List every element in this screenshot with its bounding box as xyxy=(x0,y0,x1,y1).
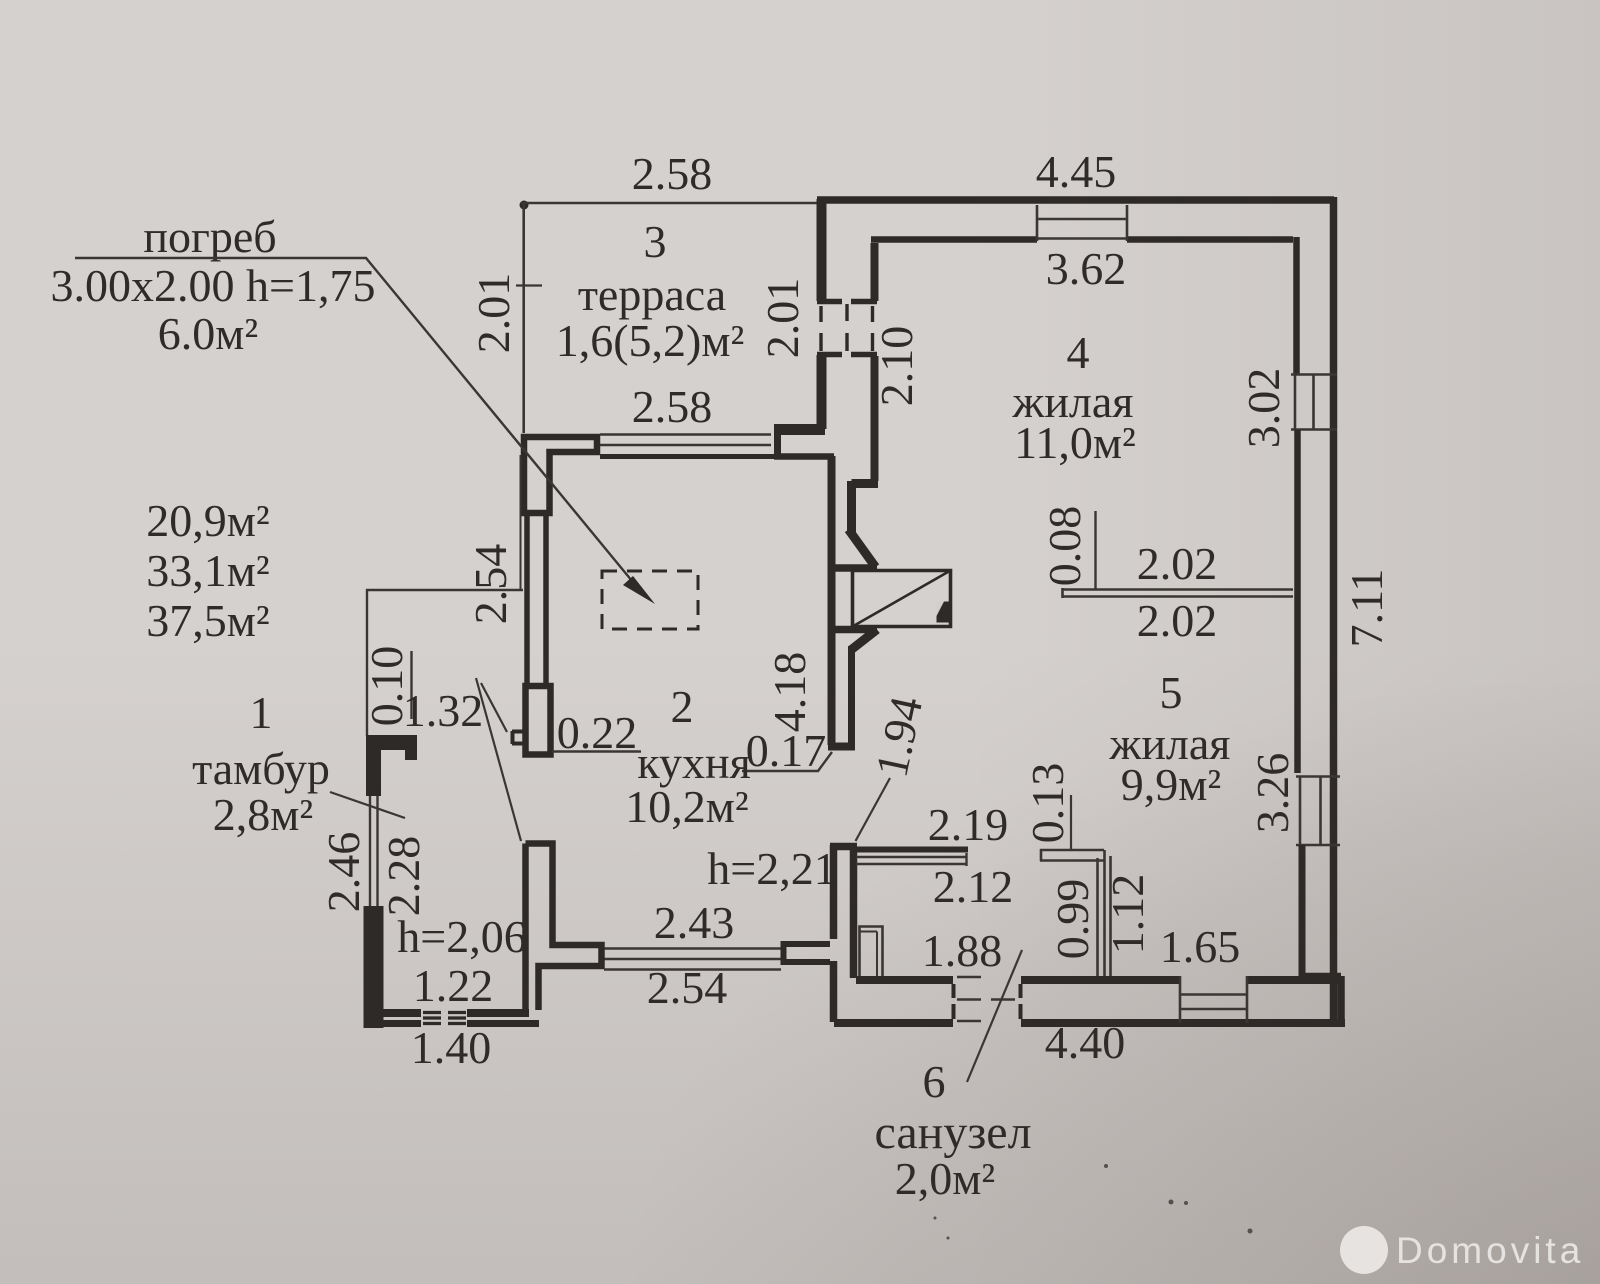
wall north exterior outer xyxy=(817,196,1334,204)
node cellar dashed rectangle xyxy=(602,571,698,629)
svg-text:терраса: терраса xyxy=(578,269,726,320)
svg-text:Domovita: Domovita xyxy=(1396,1230,1584,1271)
wall below furnace diagonal xyxy=(852,630,878,650)
label areas 20,9 33,1 37,5 xyxy=(146,495,269,646)
svg-text:2.10: 2.10 xyxy=(871,326,922,407)
door dashes 2.01/2.10 opening xyxy=(817,302,877,355)
wall tambur east T-pillar xyxy=(526,844,602,1011)
svg-text:2,8м²: 2,8м² xyxy=(213,789,313,840)
wire terrace top edge xyxy=(521,202,819,205)
wire terrace left edge xyxy=(522,203,525,433)
door threshold marks 1.40 xyxy=(423,1013,466,1024)
dust specks xyxy=(934,1164,1253,1240)
wall south outer segments xyxy=(834,1019,1345,1027)
svg-text:2.28: 2.28 xyxy=(378,836,429,917)
svg-text:4: 4 xyxy=(1067,327,1090,378)
wall terrace SE pillar xyxy=(774,424,825,435)
svg-text:10,2м²: 10,2м² xyxy=(625,781,748,832)
svg-text:1.88: 1.88 xyxy=(922,925,1003,976)
svg-text:1,6(5,2)м²: 1,6(5,2)м² xyxy=(556,315,745,366)
svg-text:4.45: 4.45 xyxy=(1036,146,1117,197)
svg-text:2.02: 2.02 xyxy=(1137,538,1218,589)
svg-text:9,9м²: 9,9м² xyxy=(1121,759,1221,810)
svg-text:2.19: 2.19 xyxy=(928,799,1009,850)
wall north interior inner line xyxy=(871,236,1293,243)
watermark Domovita xyxy=(1340,1226,1584,1274)
wall bathroom west room-side xyxy=(850,849,858,978)
dimension 1.94 rotated with leader xyxy=(856,692,933,841)
svg-text:тамбур: тамбур xyxy=(192,743,330,794)
svg-text:санузел: санузел xyxy=(874,1106,1031,1159)
svg-text:0.08: 0.08 xyxy=(1039,506,1090,587)
svg-text:2.58: 2.58 xyxy=(632,381,713,432)
window north 4.45 xyxy=(1037,205,1127,241)
svg-text:1.22: 1.22 xyxy=(413,960,494,1011)
wall kitchen east jog xyxy=(849,481,879,567)
window east 3.02 xyxy=(1291,374,1337,430)
svg-text:2.58: 2.58 xyxy=(632,148,713,199)
svg-text:2.54: 2.54 xyxy=(465,544,516,625)
wall kitchen west door pillar xyxy=(526,686,551,755)
svg-text:2.02: 2.02 xyxy=(1137,595,1218,646)
svg-text:2.54: 2.54 xyxy=(647,962,728,1013)
dimension 2.01 left xyxy=(468,273,542,354)
window east 3.26 xyxy=(1296,776,1340,845)
svg-text:4.40: 4.40 xyxy=(1045,1017,1126,1068)
wall east interior upper xyxy=(1293,237,1300,374)
wall tambur west lower block xyxy=(364,906,384,1028)
wall tambur south inner/outer left of door xyxy=(383,1009,421,1017)
svg-text:1.32: 1.32 xyxy=(403,685,484,736)
svg-text:3.62: 3.62 xyxy=(1046,243,1127,294)
wire leader room 6 xyxy=(967,950,1022,1082)
dimension 0.17 with leader xyxy=(742,725,832,776)
furnace top cap xyxy=(828,564,877,572)
wire leader to kitchen pillar xyxy=(476,678,521,841)
svg-text:1: 1 xyxy=(250,687,273,738)
wire 2.54 extension line xyxy=(520,455,522,589)
wire leader tambur xyxy=(330,792,405,818)
svg-text:2: 2 xyxy=(671,681,694,732)
svg-text:3.00x2.00 h=1,75: 3.00x2.00 h=1,75 xyxy=(51,260,376,311)
furnace bottom cap xyxy=(829,626,877,634)
svg-text:2,0м²: 2,0м² xyxy=(895,1153,995,1204)
node terrace corner dot xyxy=(520,201,529,210)
svg-text:4.18: 4.18 xyxy=(764,652,815,733)
svg-text:1.94: 1.94 xyxy=(866,692,933,781)
svg-text:37,5м²: 37,5м² xyxy=(146,595,269,646)
fixture bathroom corner xyxy=(860,927,883,979)
wall bathroom west top cap xyxy=(830,843,857,851)
svg-text:3: 3 xyxy=(644,216,667,267)
svg-text:3.02: 3.02 xyxy=(1238,368,1289,449)
wall kitchen west double lines xyxy=(527,516,546,684)
svg-text:h=2,21: h=2,21 xyxy=(707,843,836,894)
svg-text:0.13: 0.13 xyxy=(1022,763,1073,844)
niche partition 0.99/1.12 xyxy=(1040,849,1111,976)
svg-text:7.11: 7.11 xyxy=(1341,569,1392,648)
svg-text:2.01: 2.01 xyxy=(468,273,519,354)
wall east interior lower xyxy=(1299,845,1306,978)
wall SE corner step xyxy=(1300,976,1341,1023)
wall kitchen east kitchen-side line xyxy=(828,456,836,745)
door south wall dashes xyxy=(954,984,1021,1019)
svg-text:h=2,06: h=2,06 xyxy=(397,911,526,962)
wall tambur west upper block xyxy=(366,735,417,796)
window kitchen north (2.58) xyxy=(600,435,771,446)
svg-text:33,1м²: 33,1м² xyxy=(146,545,269,596)
svg-text:0.17: 0.17 xyxy=(746,725,827,776)
svg-text:6: 6 xyxy=(923,1056,946,1107)
partition bathroom north (2.19) xyxy=(853,847,968,853)
wire tambur thin outline top xyxy=(366,589,523,736)
dimension 1.32 with leader xyxy=(403,683,507,736)
svg-text:5: 5 xyxy=(1160,667,1183,718)
partition room4/room5 (2.02 shelf) xyxy=(1062,588,1293,598)
svg-text:2.46: 2.46 xyxy=(318,832,369,913)
svg-text:погреб: погреб xyxy=(143,211,276,262)
label погреб with leader and arrow xyxy=(51,211,655,604)
dimension 0.10 rotated xyxy=(361,646,412,727)
wall bathroom west kitchen-side xyxy=(830,845,838,939)
wall kitchen NW pillar xyxy=(524,437,597,513)
wall kitchen east side upper (wall B) xyxy=(871,243,879,301)
wall below furnace room-side line xyxy=(848,646,855,745)
wall partition end pillar xyxy=(783,941,830,965)
wire 0.13 extension line xyxy=(1070,795,1072,849)
svg-text:6.0м²: 6.0м² xyxy=(158,308,258,359)
svg-text:2.43: 2.43 xyxy=(654,897,735,948)
svg-text:1.12: 1.12 xyxy=(1102,874,1153,955)
wire 0.08 extension line xyxy=(1094,511,1096,589)
door tambur west (2.46 side) xyxy=(370,796,378,906)
svg-text:1.65: 1.65 xyxy=(1160,921,1241,972)
svg-text:20,9м²: 20,9м² xyxy=(146,495,269,546)
wall tambur south right of door xyxy=(467,1009,529,1017)
svg-text:0.99: 0.99 xyxy=(1047,879,1098,960)
wall east interior middle xyxy=(1294,430,1301,773)
svg-text:2.01: 2.01 xyxy=(757,278,808,359)
partition kitchen south with door (2.43/2.54) xyxy=(604,949,781,970)
window south 1.65 xyxy=(1180,976,1247,1023)
wall east exterior outer xyxy=(1330,197,1338,1023)
svg-text:11,0м²: 11,0м² xyxy=(1014,417,1136,468)
wall south inner segments xyxy=(856,976,1341,984)
stove/furnace body xyxy=(853,571,951,627)
wall west exterior upper (by terrace) xyxy=(817,199,827,301)
wall west exterior lower segment xyxy=(817,355,827,429)
svg-text:3.26: 3.26 xyxy=(1247,753,1298,834)
wall kitchen east bottom cap xyxy=(828,743,855,751)
svg-text:2.12: 2.12 xyxy=(933,861,1014,912)
dimension 0.22 with underline xyxy=(552,707,641,758)
svg-text:1.40: 1.40 xyxy=(411,1022,492,1073)
